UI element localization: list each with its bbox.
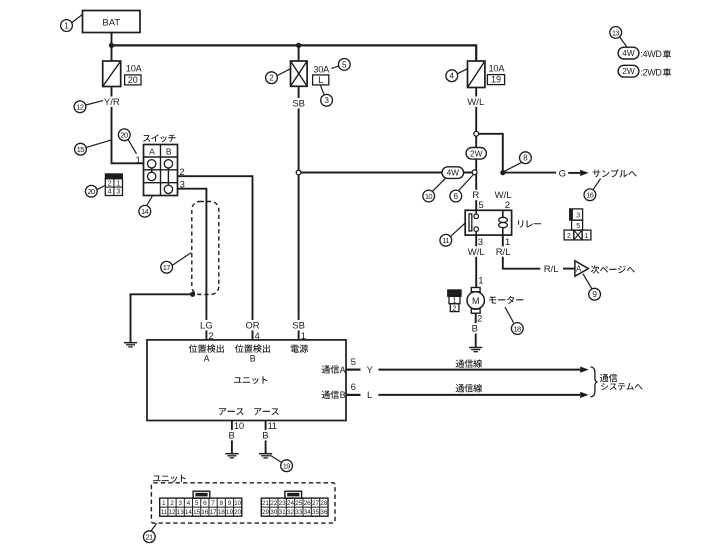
svg-text:11: 11	[442, 236, 449, 245]
relay pin1 inner stub	[502, 228, 504, 236]
svg-text:3: 3	[324, 96, 329, 105]
label W/L fuse19	[467, 96, 485, 107]
svg-text:15: 15	[193, 509, 201, 516]
text position-detect A	[189, 344, 224, 363]
svg-text:3: 3	[116, 189, 120, 196]
svg-text:19: 19	[283, 462, 291, 471]
svg-text:11: 11	[160, 509, 167, 516]
text position-detect B	[235, 344, 270, 363]
svg-text:A: A	[204, 353, 210, 363]
svg-text:4: 4	[108, 189, 112, 196]
callout 4	[446, 69, 468, 82]
label B pin10	[227, 430, 236, 441]
unit pin 2 label	[208, 331, 213, 342]
wire 4WD branch	[299, 172, 475, 174]
junction fusible-link branch	[296, 43, 301, 48]
label relay pin2	[505, 200, 510, 211]
text earth earth (a-su)	[219, 408, 279, 415]
unit pin 6 stub	[346, 382, 361, 395]
svg-text:19: 19	[226, 509, 234, 516]
text comm system (tsushin shisutemu-e)	[600, 374, 643, 391]
svg-text:10A: 10A	[489, 64, 506, 74]
switch contact A1	[148, 160, 156, 168]
fusible link 30A	[291, 61, 308, 86]
svg-text:36: 36	[320, 509, 328, 516]
svg-text:Y: Y	[367, 365, 374, 376]
svg-text:A: A	[340, 365, 346, 375]
svg-text:BAT: BAT	[102, 17, 120, 28]
comm line Y	[378, 367, 588, 373]
svg-text:3: 3	[478, 237, 483, 248]
unit pin 1 label	[301, 331, 306, 342]
label B pin11	[261, 430, 270, 441]
svg-text:A: A	[149, 146, 155, 156]
label OR	[245, 320, 260, 331]
comm line L	[378, 392, 588, 398]
wire from battery to main bus	[111, 33, 113, 45]
svg-text:5: 5	[478, 200, 483, 211]
relay coil	[499, 217, 508, 227]
svg-text:L: L	[367, 390, 372, 401]
svg-text:7: 7	[211, 500, 215, 507]
ground pin 11	[259, 454, 272, 458]
next-page triangle A	[575, 261, 588, 277]
switch contact B3	[164, 185, 172, 193]
svg-text:14: 14	[185, 509, 193, 516]
ground pin 10	[225, 454, 238, 458]
svg-text:13: 13	[177, 509, 185, 516]
relay contact bottom	[474, 227, 479, 232]
brace comm system	[590, 367, 597, 397]
option oval 2W	[466, 148, 486, 160]
text motor (mo-ta-)	[489, 296, 523, 304]
wire relay pin3 to motor label 1	[478, 276, 483, 287]
svg-text:1: 1	[584, 233, 588, 240]
svg-text:24: 24	[287, 500, 295, 507]
svg-text:26: 26	[304, 500, 312, 507]
junction shield ground	[190, 292, 195, 297]
svg-text:2: 2	[179, 167, 184, 178]
box 19	[487, 75, 504, 85]
svg-text:R/L: R/L	[544, 264, 559, 275]
text unit connector (yunitto)	[153, 475, 186, 483]
svg-text:R/L: R/L	[496, 247, 511, 258]
svg-text:18: 18	[513, 324, 521, 333]
wire branch to G and relay pin 2	[476, 134, 503, 173]
svg-text:14: 14	[141, 207, 149, 216]
svg-text:2: 2	[108, 180, 112, 187]
wire G arrow	[568, 170, 588, 176]
svg-text:M: M	[472, 296, 480, 306]
callout 14	[139, 196, 152, 217]
text relay (rire-)	[518, 220, 541, 227]
svg-text:20: 20	[234, 509, 242, 516]
box 20	[125, 75, 141, 85]
wire fuse 19 down (W/L)	[475, 88, 477, 211]
svg-text:9: 9	[228, 500, 232, 507]
svg-text:10: 10	[425, 192, 433, 201]
motor terminal bottom	[471, 309, 480, 313]
svg-text:2: 2	[170, 500, 174, 507]
switch contact A2	[148, 172, 156, 180]
legend oval 4W	[618, 47, 639, 59]
svg-text:W/L: W/L	[468, 247, 485, 258]
relay pin2 inner stub	[502, 210, 504, 217]
callout 20 connector	[85, 185, 105, 197]
node open junction 4W/2W meet	[472, 170, 477, 175]
svg-text:G: G	[559, 168, 566, 179]
label R	[472, 190, 481, 201]
text power (dengen)	[291, 345, 308, 353]
callout 2	[266, 69, 291, 84]
svg-text:4: 4	[187, 500, 191, 507]
svg-text:18: 18	[218, 509, 226, 516]
label relay pin5	[478, 200, 483, 211]
svg-text:1: 1	[478, 276, 483, 287]
svg-text:30A: 30A	[313, 64, 330, 74]
svg-text:4W: 4W	[447, 168, 460, 178]
wire G branch	[503, 172, 556, 174]
svg-text:5: 5	[195, 500, 199, 507]
callout 12	[74, 101, 103, 113]
label R/L relay pin1	[494, 246, 512, 257]
wire main bus	[112, 45, 477, 61]
svg-text:20: 20	[128, 75, 138, 85]
pointer line 18	[505, 307, 514, 323]
svg-text:15: 15	[77, 145, 85, 154]
label SB	[292, 98, 306, 109]
option oval 4W	[442, 167, 464, 179]
svg-text:31: 31	[279, 509, 287, 516]
motor terminal top	[471, 288, 480, 292]
svg-text:LG: LG	[200, 320, 213, 331]
unit connector left latch	[193, 491, 210, 498]
unit connector left block	[160, 498, 242, 516]
svg-text:30: 30	[270, 509, 278, 516]
svg-text:SB: SB	[292, 320, 305, 331]
svg-text:A: A	[576, 265, 582, 274]
svg-text:19: 19	[491, 75, 501, 85]
legend text 4WD	[640, 49, 671, 59]
svg-text:6: 6	[203, 500, 207, 507]
svg-text:2W: 2W	[622, 66, 635, 76]
svg-text:17: 17	[210, 509, 218, 516]
text comm-line L (tsushinsen)	[456, 384, 482, 392]
svg-text:25: 25	[295, 500, 303, 507]
text comm B	[322, 390, 346, 400]
wire relay pin1 R/L	[503, 235, 541, 269]
svg-text:3: 3	[576, 212, 580, 219]
box L	[313, 75, 329, 85]
callout 15	[75, 140, 112, 155]
callout 20 switch pin1	[118, 129, 136, 154]
unit pin 10 wire	[232, 421, 244, 454]
callout 11	[440, 223, 466, 247]
svg-text:35: 35	[312, 509, 320, 516]
svg-text:8: 8	[219, 500, 223, 507]
label 30A	[313, 64, 330, 74]
svg-text:W/L: W/L	[467, 97, 484, 108]
svg-text:20: 20	[87, 187, 95, 196]
label Y/R	[103, 96, 121, 107]
shield dashed box	[192, 202, 219, 295]
svg-text:SB: SB	[292, 98, 305, 109]
svg-text:16: 16	[201, 509, 209, 516]
label 10A fuse20	[126, 63, 143, 73]
unit connector right block	[261, 498, 328, 516]
wire fuse 20 to switch pin 1 (Y/R)	[112, 87, 144, 164]
callout 10	[423, 178, 446, 202]
node open junction W/L	[474, 131, 479, 136]
callout 9	[583, 274, 601, 300]
svg-text::4WD: :4WD	[640, 49, 662, 59]
callout 8	[504, 152, 531, 172]
svg-text:2: 2	[269, 74, 274, 83]
text sample-e (to sample)	[593, 169, 637, 177]
connector icon motor	[448, 290, 462, 313]
callout 17	[161, 253, 191, 274]
svg-text:1: 1	[64, 21, 69, 30]
unit pin 5 stub	[346, 357, 361, 370]
svg-text:OR: OR	[245, 320, 259, 331]
svg-text:10: 10	[234, 500, 242, 507]
svg-text:4: 4	[450, 72, 455, 81]
svg-text:B: B	[166, 146, 172, 156]
switch link A	[151, 168, 153, 172]
switch body	[144, 145, 178, 196]
label SB unit	[292, 320, 306, 331]
text switch (suicchi)	[143, 134, 176, 142]
label B motor	[470, 323, 479, 334]
svg-text:1: 1	[116, 180, 120, 187]
label R/L next page	[544, 264, 559, 275]
svg-text:1: 1	[505, 237, 510, 248]
svg-text:33: 33	[295, 509, 303, 516]
callout 13	[610, 27, 627, 47]
label L	[367, 390, 372, 401]
svg-text:13: 13	[612, 28, 620, 37]
svg-text:B: B	[229, 430, 235, 441]
label relay pin1	[505, 237, 510, 248]
unit pin 11 wire	[266, 421, 277, 454]
svg-text:16: 16	[586, 191, 594, 200]
wire fusible link branch	[298, 45, 300, 61]
text unit (yunitto)	[234, 376, 267, 384]
svg-text:B: B	[250, 353, 256, 363]
unit box	[147, 340, 346, 421]
svg-text:5: 5	[351, 357, 356, 368]
fuse 10A #20	[103, 61, 121, 87]
callout 1	[61, 14, 83, 31]
shield ground wire	[131, 294, 193, 342]
legend oval 2W	[618, 65, 639, 77]
label LG	[200, 320, 214, 331]
junction battery-bus	[109, 43, 114, 48]
label 10A fuse19	[489, 64, 506, 74]
callout 3	[320, 85, 332, 106]
motor M	[467, 292, 484, 309]
svg-text:29: 29	[262, 509, 270, 516]
svg-text:L: L	[318, 75, 323, 85]
svg-text:Y/R: Y/R	[104, 97, 120, 108]
svg-text:10A: 10A	[126, 63, 143, 73]
svg-text:21: 21	[262, 500, 270, 507]
switch pin 2 wire	[178, 167, 253, 340]
switch contact B1	[164, 160, 172, 168]
svg-text:3: 3	[178, 500, 182, 507]
svg-text:20: 20	[120, 131, 128, 140]
unit pin 4 label	[255, 331, 260, 342]
text next-page (tsugi pe-ji-e)	[591, 265, 635, 273]
svg-text::2WD: :2WD	[640, 67, 662, 77]
label relay pin3	[478, 237, 483, 248]
label G	[559, 168, 566, 179]
relay contact top	[474, 214, 479, 219]
svg-text:28: 28	[320, 500, 328, 507]
svg-text:2: 2	[452, 305, 456, 312]
relay armature	[469, 214, 472, 231]
unit connector right latch	[285, 491, 302, 498]
svg-text:8: 8	[523, 154, 528, 163]
svg-text:27: 27	[312, 500, 320, 507]
svg-text:2: 2	[505, 200, 510, 211]
svg-text:B: B	[340, 390, 346, 400]
switch pin 1 label	[136, 155, 141, 166]
legend text 2WD	[640, 67, 671, 77]
ground left	[124, 343, 137, 347]
label Y	[367, 365, 374, 376]
callout 5	[332, 59, 351, 71]
svg-text:9: 9	[592, 290, 597, 299]
svg-text:1: 1	[162, 500, 166, 507]
svg-text:12: 12	[76, 103, 84, 112]
callout 19	[270, 455, 292, 471]
motor pin 2 wire	[476, 313, 483, 347]
svg-text:17: 17	[163, 263, 171, 272]
svg-text:34: 34	[304, 509, 312, 516]
switch pin 3 wire	[178, 180, 207, 340]
svg-text:4W: 4W	[622, 48, 635, 58]
junction G branch	[500, 170, 505, 175]
svg-text:1: 1	[136, 155, 141, 166]
relay box	[465, 210, 511, 235]
svg-text:2: 2	[567, 233, 571, 240]
svg-text:23: 23	[279, 500, 287, 507]
svg-text:3: 3	[180, 180, 185, 191]
svg-text:12: 12	[168, 509, 176, 516]
text comm A	[322, 365, 346, 375]
svg-text:2W: 2W	[470, 148, 483, 158]
wire bus to fuse 20	[111, 45, 113, 61]
svg-text:6: 6	[351, 382, 356, 393]
svg-text:5: 5	[342, 60, 347, 69]
label W/L relay pin2	[494, 190, 512, 201]
relay pin5 inner stub	[475, 210, 477, 214]
svg-text:22: 22	[270, 500, 278, 507]
callout 18	[511, 323, 523, 335]
battery BAT	[83, 11, 141, 33]
wire relay pin3 to motor (W/L)	[475, 235, 477, 287]
unit connector dashed box	[151, 483, 335, 523]
connector icon switch	[105, 174, 122, 196]
callout 21	[143, 523, 156, 542]
relay pin3 inner stub	[475, 231, 477, 235]
svg-text:B: B	[472, 324, 478, 335]
connector icon relay	[564, 209, 591, 240]
label W/L relay pin3	[467, 246, 485, 257]
svg-text:5: 5	[576, 223, 580, 230]
wire to next-page triangle	[563, 268, 575, 270]
node open junction SB branch	[296, 170, 301, 175]
svg-text:6: 6	[454, 192, 459, 201]
ground motor	[469, 348, 482, 352]
switch link B	[167, 168, 169, 185]
callout 16	[584, 179, 601, 201]
svg-text:32: 32	[287, 509, 295, 516]
text comm-line Y (tsushinsen)	[456, 359, 482, 367]
svg-text:B: B	[262, 430, 268, 441]
wire SB from fusible link to unit pin 1	[298, 86, 300, 340]
svg-text:21: 21	[145, 533, 153, 542]
callout 6	[450, 175, 473, 202]
fuse 10A #19	[468, 61, 485, 88]
